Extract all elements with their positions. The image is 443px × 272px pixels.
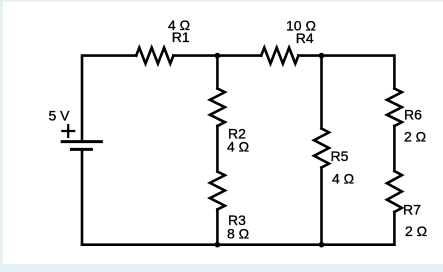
svg-text:R4: R4 xyxy=(296,30,314,46)
node D junction dot (bottom, R5 branch) xyxy=(319,242,325,248)
resistor R6 xyxy=(387,89,402,127)
resistor R5 xyxy=(314,129,329,168)
node C junction dot (bottom, R2 branch) xyxy=(215,242,221,248)
resistor R1 xyxy=(136,48,173,64)
node B junction dot (top, R5 branch) xyxy=(319,53,325,59)
wire: battery top plate up to top-left corner, across to R1 xyxy=(82,56,136,141)
battery polarity + mark xyxy=(62,125,74,137)
wire: R3 down to node C xyxy=(216,210,219,245)
wire: bottom rail through nodes D and C to bottom-left corner xyxy=(82,243,394,246)
svg-text:4 Ω: 4 Ω xyxy=(332,171,354,187)
resistor R3 xyxy=(210,172,225,210)
svg-text:R5: R5 xyxy=(331,148,349,164)
wire: R5 down to node D xyxy=(320,168,323,245)
svg-text:4 Ω: 4 Ω xyxy=(227,139,249,155)
svg-text:R6: R6 xyxy=(404,106,422,122)
wire: R2 to R3 xyxy=(216,126,219,172)
resistor R7 xyxy=(387,171,402,212)
wire: node B down to R5 xyxy=(320,56,323,129)
wire: R6 to R7 xyxy=(393,126,396,171)
svg-text:2 Ω: 2 Ω xyxy=(405,223,427,239)
battery V1 negative plate (short) xyxy=(72,148,92,151)
wire: top rail between R1 and R4 through node A xyxy=(173,54,261,57)
svg-text:2 Ω: 2 Ω xyxy=(404,129,426,145)
wire: R7 to bottom-right corner xyxy=(393,212,396,245)
battery V1 positive plate (long) xyxy=(62,140,101,143)
wire: bottom-left corner up to battery bottom plate xyxy=(81,151,84,245)
wire: node A down to R2 xyxy=(216,56,219,89)
svg-text:5 V: 5 V xyxy=(49,107,71,123)
svg-text:8 Ω: 8 Ω xyxy=(227,226,249,242)
svg-text:R7: R7 xyxy=(403,201,421,217)
svg-text:R1: R1 xyxy=(172,29,190,45)
wire: R4 to top-right corner, down to R6 xyxy=(298,56,394,89)
resistor R2 xyxy=(210,89,225,127)
node A junction dot (top, R2 branch) xyxy=(215,53,221,59)
resistor R4 xyxy=(261,48,298,64)
